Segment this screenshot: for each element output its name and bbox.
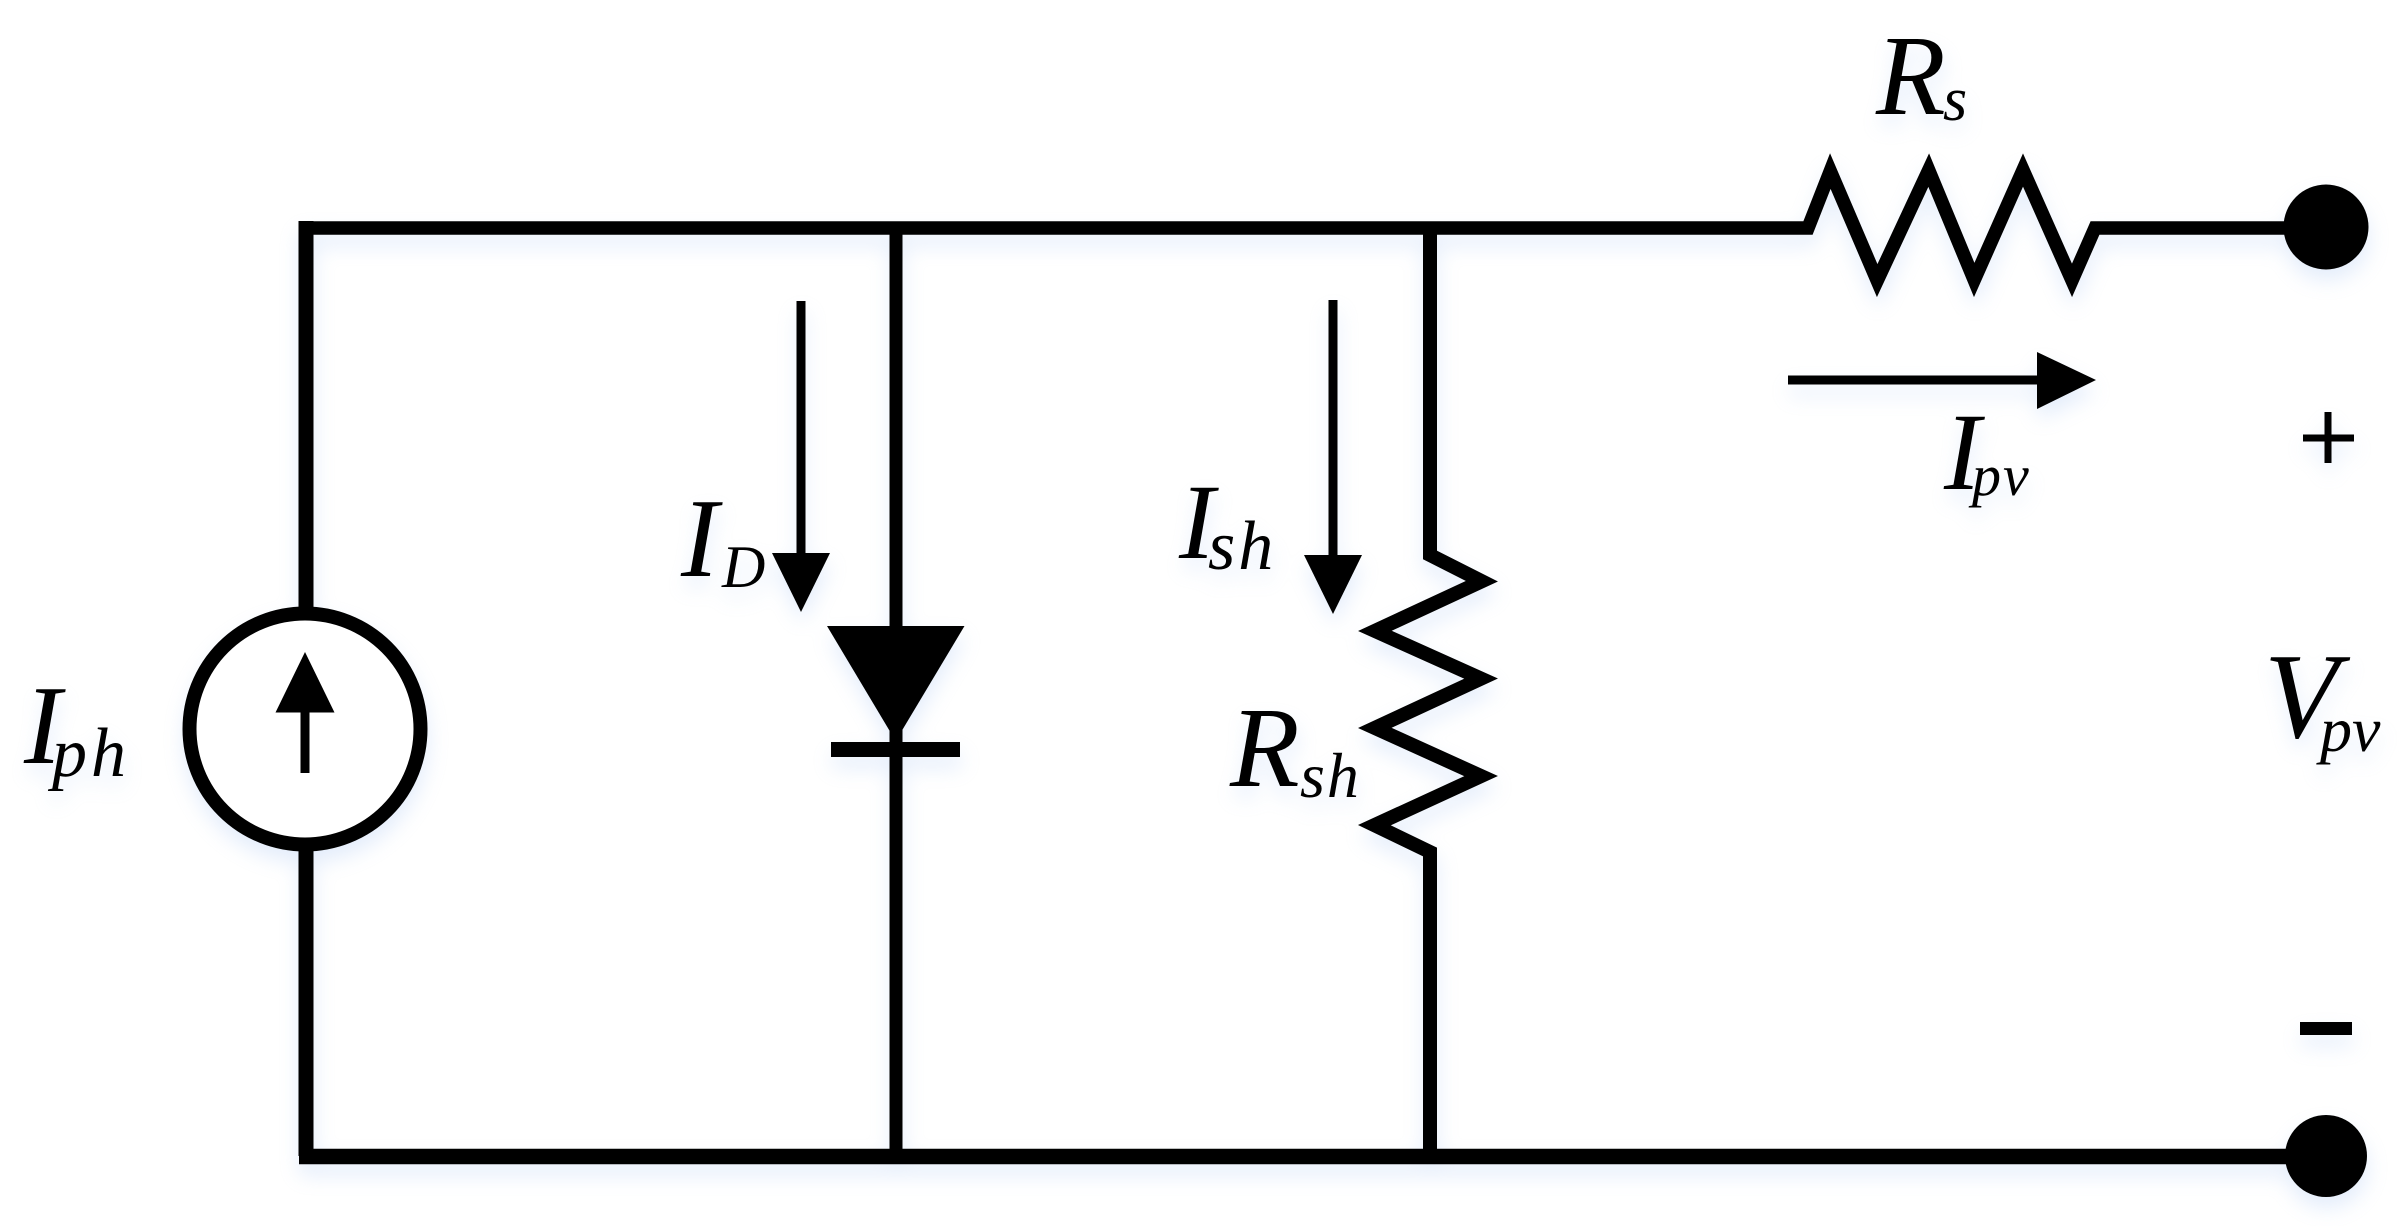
svg-text:pv: pv bbox=[1968, 443, 2031, 508]
terminal node top-right bbox=[2284, 185, 2369, 270]
svg-text:sh: sh bbox=[1208, 508, 1276, 585]
wire left vertical upper bbox=[299, 221, 314, 614]
svg-text:I: I bbox=[680, 477, 723, 601]
wire diode branch vertical bbox=[890, 228, 903, 1156]
svg-text:ph: ph bbox=[47, 715, 130, 792]
minus sign bbox=[2300, 1022, 2352, 1035]
current arrow ID bbox=[772, 301, 830, 612]
wire top horizontal + resistor Rs zigzag + wire to terminal bbox=[306, 170, 2326, 281]
current source arrow bbox=[276, 652, 335, 773]
diode D1 triangle bbox=[827, 626, 965, 741]
current arrow Ish bbox=[1304, 300, 1362, 614]
svg-text:D: D bbox=[721, 534, 765, 600]
label Vpv bbox=[2264, 629, 2381, 765]
label ID bbox=[680, 477, 765, 601]
svg-text:pv: pv bbox=[2316, 694, 2381, 765]
diode D1 cathode bar bbox=[831, 742, 960, 757]
label Ipv bbox=[1943, 391, 2031, 513]
wire left vertical lower bbox=[299, 845, 314, 1156]
label Rsh bbox=[1229, 684, 1361, 811]
terminal node bottom-right bbox=[2285, 1115, 2367, 1197]
label Ish bbox=[1178, 464, 1276, 585]
label Iph bbox=[23, 664, 130, 792]
svg-text:R: R bbox=[1875, 12, 1946, 139]
svg-text:R: R bbox=[1229, 684, 1300, 811]
wire shunt branch + resistor Rsh zigzag bbox=[1374, 228, 1482, 1156]
wire bottom horizontal bbox=[299, 1149, 2326, 1165]
svg-text:sh: sh bbox=[1300, 740, 1361, 811]
svg-text:s: s bbox=[1943, 66, 1967, 134]
current source Iph: circle bbox=[190, 614, 421, 845]
label Rs bbox=[1875, 12, 1967, 139]
plus sign bbox=[2303, 412, 2354, 463]
current arrow Ipv bbox=[1788, 352, 2096, 409]
